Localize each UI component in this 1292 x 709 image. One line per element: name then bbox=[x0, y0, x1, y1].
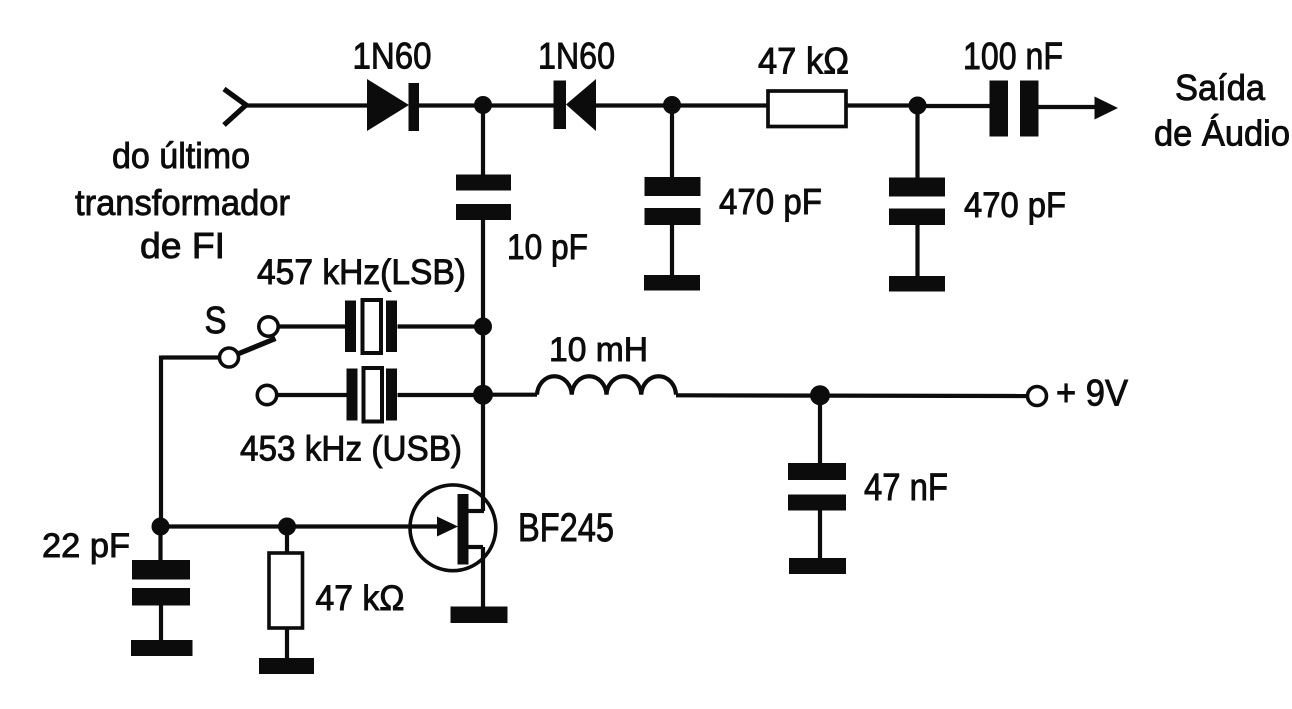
svg-text:do último: do último bbox=[112, 135, 250, 176]
node E junction dot bbox=[473, 385, 493, 405]
transistor Q1 channel bar bbox=[458, 494, 469, 565]
ground bar under C5 bbox=[789, 558, 846, 574]
wire C5 to ground bbox=[818, 510, 822, 561]
node D junction dot bbox=[474, 318, 492, 336]
diode D2 1N60 bbox=[554, 79, 597, 131]
wire input to diode D1 bbox=[244, 103, 368, 107]
capacitor C3 100nF bbox=[990, 81, 1039, 137]
svg-text:1N60: 1N60 bbox=[538, 36, 615, 77]
svg-text:470 pF: 470 pF bbox=[964, 186, 1066, 225]
capacitor C5 47nF bbox=[788, 463, 846, 511]
svg-text:47 kΩ: 47 kΩ bbox=[758, 41, 849, 82]
switch pivot contact bbox=[220, 348, 239, 367]
wire switch pivot to left corner bbox=[161, 355, 220, 359]
gate arrowhead bbox=[437, 517, 458, 537]
wire node F down to capacitor C5 bbox=[818, 395, 822, 465]
wire node C to capacitor C3 bbox=[918, 104, 990, 108]
crystal X2 453 kHz bbox=[347, 369, 398, 421]
ground bar under C2 bbox=[644, 275, 700, 291]
capacitor C2 470pF bbox=[645, 177, 701, 225]
svg-text:10 mH: 10 mH bbox=[549, 331, 648, 369]
svg-text:453 kHz (USB): 453 kHz (USB) bbox=[240, 430, 462, 469]
diode D1 1N60 bbox=[367, 79, 419, 131]
capacitor C1 10pF bbox=[456, 175, 511, 221]
transistor Q1 BF245 circle bbox=[410, 485, 496, 571]
svg-text:de Áudio: de Áudio bbox=[1154, 113, 1290, 154]
transistor Q1 drain lead bbox=[468, 509, 484, 513]
ground bar under R2 bbox=[259, 658, 314, 674]
wire throw1 to crystal X1 bbox=[278, 324, 346, 328]
wire node E down to JFET drain bbox=[481, 395, 485, 511]
capacitor C6 22pF bbox=[132, 560, 190, 606]
svg-text:470 pF: 470 pF bbox=[719, 181, 822, 222]
wire node H down to resistor R2 bbox=[285, 527, 289, 555]
inductor L1 10mH bbox=[483, 376, 676, 394]
wire node A down to capacitor C1 bbox=[481, 105, 485, 176]
switch lever bbox=[237, 339, 276, 355]
wire C6 to ground bbox=[159, 605, 163, 643]
node F junction dot bbox=[810, 385, 830, 405]
node H junction dot bbox=[278, 518, 296, 536]
transistor Q1 source lead bbox=[468, 545, 483, 549]
svg-text:100 nF: 100 nF bbox=[963, 36, 1063, 78]
svg-text:Saída: Saída bbox=[1175, 67, 1266, 108]
svg-text:47 kΩ: 47 kΩ bbox=[316, 579, 405, 618]
resistor R2 47k vertical box bbox=[269, 553, 303, 628]
output arrowhead bbox=[1095, 97, 1119, 120]
svg-text:457 kHz(LSB): 457 kHz(LSB) bbox=[257, 253, 466, 292]
wire node C down to capacitor C4 bbox=[915, 105, 919, 180]
wire node D down to node E bbox=[481, 327, 485, 396]
wire R1 to node C bbox=[846, 103, 918, 107]
node A junction dot bbox=[474, 96, 492, 114]
ground bar under Q1 bbox=[451, 607, 508, 624]
ground bar under C6 bbox=[131, 640, 193, 656]
wire node A to diode D2 bbox=[483, 103, 554, 107]
svg-text:22 pF: 22 pF bbox=[42, 527, 130, 565]
svg-text:BF245: BF245 bbox=[518, 506, 614, 550]
wire D2 to node B bbox=[596, 103, 672, 107]
node G junction dot bbox=[152, 518, 170, 536]
wire node G down to capacitor C6 bbox=[158, 527, 162, 562]
node C junction dot bbox=[909, 97, 927, 115]
wire throw2 to crystal X2 bbox=[277, 393, 347, 397]
wire crystal X1 to node D bbox=[398, 324, 484, 328]
wire node B to resistor R1 bbox=[672, 103, 769, 107]
capacitor C4 470pF bbox=[889, 178, 945, 226]
wire C2 to ground bbox=[670, 225, 674, 278]
wire node B down to capacitor C2 bbox=[670, 105, 674, 180]
resistor R1 47k box bbox=[768, 91, 846, 127]
wire source down to ground bbox=[481, 547, 485, 610]
wire left vertical to gate line bbox=[159, 356, 163, 527]
ground bar under C4 bbox=[889, 276, 945, 292]
node B junction dot bbox=[663, 96, 681, 114]
svg-text:10 pF: 10 pF bbox=[507, 228, 588, 267]
wire C1 down to node D bbox=[481, 219, 485, 327]
svg-text:S: S bbox=[205, 300, 227, 342]
wire R2 to ground bbox=[285, 628, 289, 661]
output wire with arrow bbox=[1039, 105, 1099, 109]
svg-text:47 nF: 47 nF bbox=[864, 467, 948, 509]
svg-text:1N60: 1N60 bbox=[353, 36, 432, 77]
input chevron bbox=[224, 89, 246, 125]
wire inductor to +9V terminal bbox=[676, 393, 1028, 398]
gate wire to JFET bbox=[161, 524, 440, 528]
svg-text:transformador: transformador bbox=[75, 182, 290, 223]
svg-text:de FI: de FI bbox=[140, 225, 225, 266]
wire crystal X2 to node E bbox=[398, 393, 484, 397]
+9V terminal circle bbox=[1028, 387, 1047, 406]
switch throw contact 1 bbox=[259, 317, 278, 336]
switch throw contact 2 bbox=[257, 385, 276, 404]
svg-text:+ 9V: + 9V bbox=[1056, 373, 1128, 414]
crystal X1 457 kHz bbox=[345, 301, 397, 353]
wire C4 to ground bbox=[915, 225, 919, 279]
wire D1 to node A bbox=[419, 103, 483, 107]
